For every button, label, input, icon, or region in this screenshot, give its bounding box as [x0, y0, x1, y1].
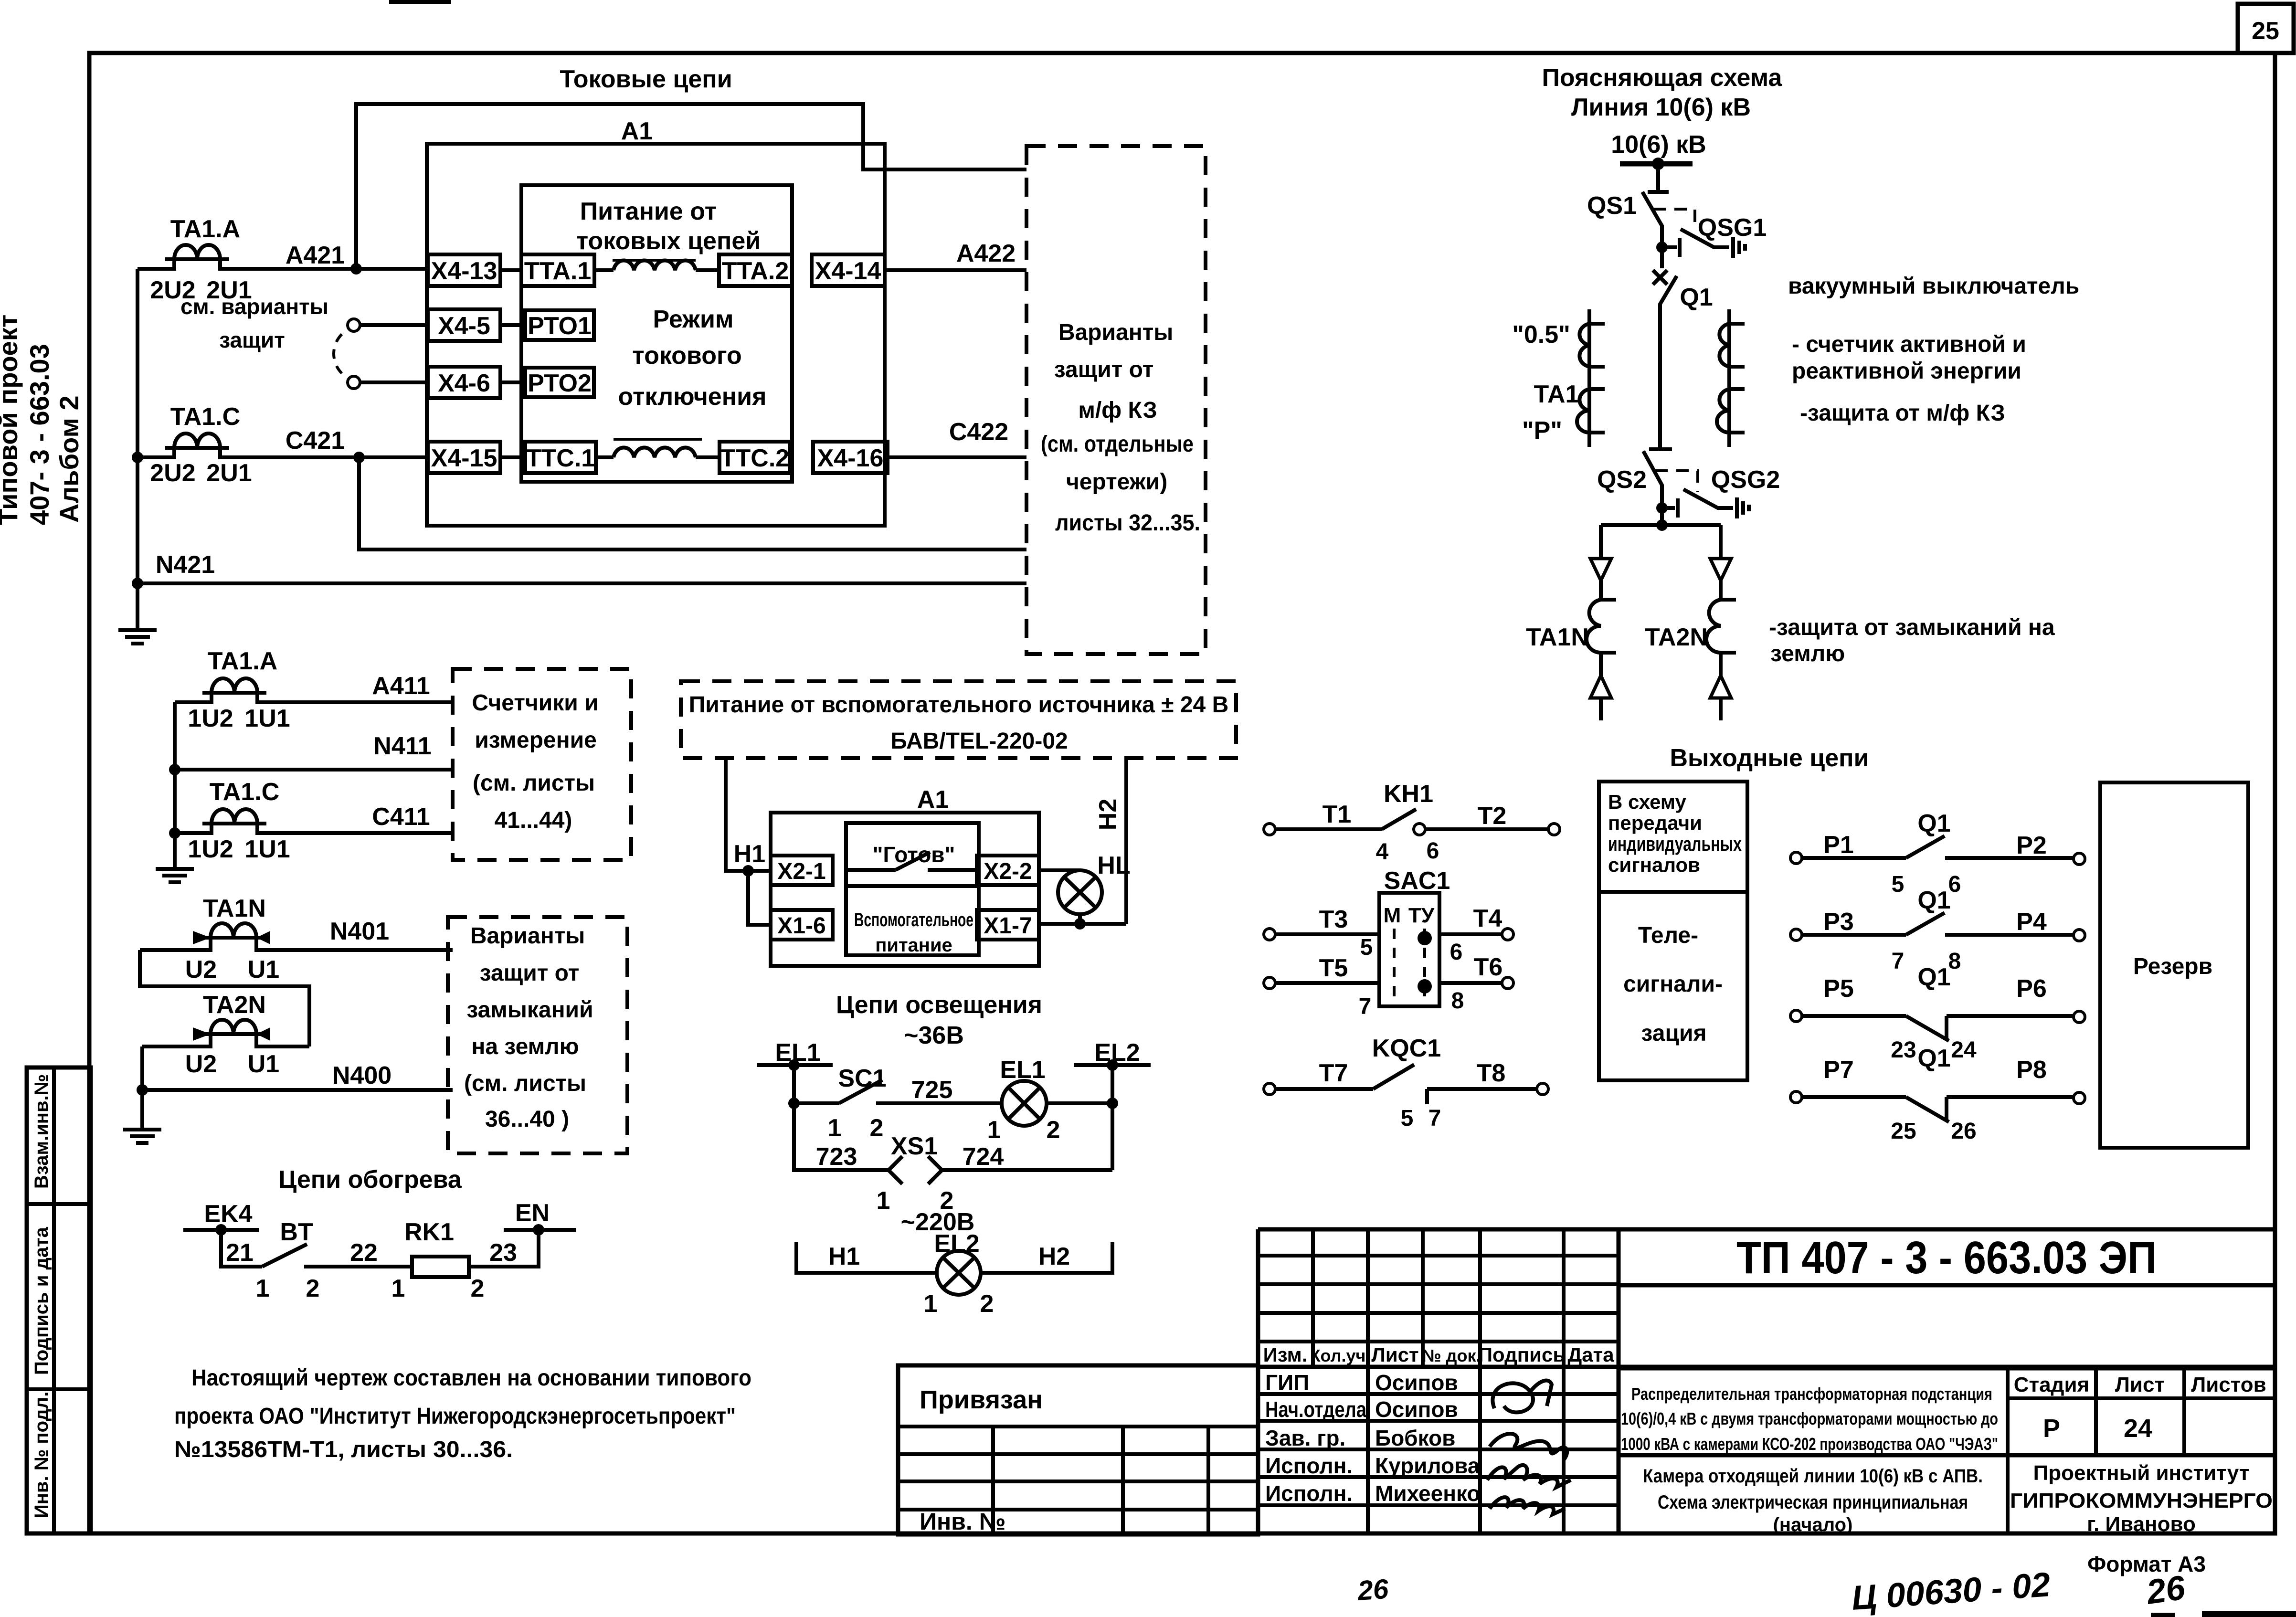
terminal X4-15: [428, 442, 500, 473]
busbar 10(6) kV: [1620, 161, 1693, 167]
svg-text:Вспомогательное: Вспомогательное: [854, 909, 973, 930]
wire T4: [1439, 905, 1513, 965]
svg-text:зация: зация: [1641, 1021, 1707, 1046]
svg-text:токового: токового: [632, 342, 741, 370]
switch SC1: [794, 1065, 887, 1142]
svg-text:A422: A422: [956, 240, 1016, 267]
wire aux left: [726, 758, 771, 871]
svg-text:U1: U1: [248, 1050, 279, 1078]
wire to X4-6: [360, 380, 428, 384]
stamp sheet title: [1643, 1466, 1983, 1535]
svg-text:H2: H2: [1038, 1243, 1070, 1270]
node H1: [742, 865, 754, 877]
wire left phase bus A: [136, 269, 139, 583]
svg-text:A421: A421: [286, 242, 345, 269]
svg-text:Лист: Лист: [1371, 1343, 1418, 1366]
svg-text:723: 723: [816, 1143, 857, 1171]
current transformer TA1.C metering: [175, 778, 453, 863]
wire H1 branch to X1-6: [748, 871, 771, 925]
svg-text:X4-6: X4-6: [438, 370, 490, 397]
terminal X4-6: [428, 367, 500, 398]
svg-text:Поясняющая схема: Поясняющая схема: [1542, 64, 1783, 92]
svg-text:Т1: Т1: [1323, 801, 1352, 828]
svg-text:P8: P8: [2016, 1056, 2047, 1084]
svg-text:X1-6: X1-6: [777, 913, 825, 939]
label Режим токового отключения: [618, 306, 767, 411]
svg-text:2: 2: [1047, 1116, 1060, 1144]
terminal X4-14: [812, 254, 885, 286]
disconnector QS2: [1597, 451, 1662, 508]
svg-text:Цепи освещения: Цепи освещения: [836, 991, 1042, 1019]
svg-text:Резерв: Резерв: [2133, 954, 2212, 979]
svg-text:листы 32...35.: листы 32...35.: [1055, 510, 1200, 536]
inner box Готов: [846, 823, 979, 955]
svg-text:Q1: Q1: [1917, 1045, 1950, 1072]
svg-text:1U2: 1U2: [188, 835, 233, 863]
svg-text:Питание от вспомогательного ис: Питание от вспомогательного источника ± …: [689, 692, 1229, 718]
svg-text:2U2: 2U2: [150, 459, 195, 487]
sheet number box 25: [2238, 4, 2294, 53]
wire TA1N to TA2N link: [140, 950, 309, 1046]
terminal X4-5: [428, 309, 500, 341]
svg-text:EK4: EK4: [204, 1200, 252, 1228]
svg-text:РТО2: РТО2: [528, 370, 592, 397]
svg-text:чертежи): чертежи): [1066, 469, 1167, 495]
telemetry box: [1599, 782, 1747, 1080]
terminal X4-13: [428, 254, 500, 286]
svg-text:Исполн.: Исполн.: [1265, 1481, 1353, 1506]
left info strip table: [27, 1067, 91, 1533]
svg-text:EN: EN: [515, 1199, 550, 1227]
svg-text:1: 1: [256, 1275, 270, 1302]
svg-text:(см. отдельные: (см. отдельные: [1041, 432, 1194, 457]
svg-text:HL: HL: [1097, 852, 1130, 879]
svg-text:защит от: защит от: [1054, 357, 1153, 382]
svg-text:Q1: Q1: [1917, 810, 1950, 837]
resistor RK1: [391, 1218, 485, 1302]
svg-text:ТУ: ТУ: [1408, 904, 1435, 927]
svg-text:P1: P1: [1823, 831, 1854, 859]
svg-text:TA1.C: TA1.C: [170, 403, 240, 431]
svg-text:Q1: Q1: [1917, 963, 1950, 991]
svg-text:U1: U1: [248, 956, 279, 983]
svg-text:TA1N: TA1N: [203, 895, 266, 922]
wire X1-7 to H2: [1039, 922, 1126, 926]
stamp stage cells: [2014, 1373, 2266, 1443]
node below QS1: [1656, 242, 1668, 253]
ground under C411: [156, 833, 194, 882]
label Питание от токовых цепей: [576, 198, 761, 260]
svg-text:QSG2: QSG2: [1711, 466, 1780, 494]
terminal PTO2: [500, 368, 594, 397]
svg-text:X4-14: X4-14: [815, 257, 881, 285]
wire 723 return: [794, 1103, 889, 1170]
stamp role names: [1265, 1370, 1481, 1506]
svg-text:Т2: Т2: [1478, 802, 1507, 830]
svg-text:5: 5: [1401, 1106, 1414, 1131]
svg-text:Исполн.: Исполн.: [1265, 1453, 1353, 1478]
terminal X4-16: [813, 442, 888, 473]
svg-text:725: 725: [911, 1076, 953, 1104]
svg-text:SAC1: SAC1: [1384, 867, 1450, 895]
svg-text:Т3: Т3: [1319, 906, 1348, 933]
svg-text:Формат А3: Формат А3: [2087, 1552, 2206, 1576]
wire T3: [1264, 906, 1379, 960]
note text about source project: [174, 1365, 751, 1462]
svg-text:BT: BT: [280, 1218, 313, 1246]
wire 23: [469, 1230, 539, 1267]
svg-text:TA1.A: TA1.A: [170, 215, 240, 243]
svg-text:сигнали-: сигнали-: [1623, 972, 1723, 997]
svg-text:Т6: Т6: [1474, 953, 1503, 981]
svg-text:проекта ОАО "Институт Нижегоро: проекта ОАО "Институт Нижегородскэнергос…: [174, 1404, 736, 1429]
svg-text:P2: P2: [2016, 832, 2047, 859]
node N411: [169, 764, 180, 775]
current transformer TA1.C: [138, 403, 428, 487]
svg-text:№ док.: № док.: [1422, 1346, 1481, 1365]
svg-text:6: 6: [1450, 940, 1463, 965]
svg-text:24: 24: [1951, 1037, 1977, 1063]
svg-text:24: 24: [2124, 1414, 2152, 1443]
svg-text:передачи: передачи: [1608, 812, 1702, 834]
lamp EL1: [987, 1056, 1060, 1144]
terminal X1-7: [977, 910, 1039, 940]
breaker aux contact row P7 P8: [1790, 1045, 2085, 1144]
svg-text:QS2: QS2: [1597, 466, 1647, 494]
svg-text:26: 26: [1951, 1119, 1976, 1144]
earthing switch QSG2: [1655, 466, 1780, 518]
terminal TTC.1: [500, 442, 596, 473]
svg-text:ТА1: ТА1: [1534, 380, 1579, 408]
svg-text:Т8: Т8: [1477, 1059, 1506, 1087]
svg-text:P3: P3: [1823, 908, 1854, 936]
svg-text:Q1: Q1: [1680, 284, 1713, 311]
svg-text:на землю: на землю: [471, 1034, 579, 1059]
svg-text:Т5: Т5: [1319, 954, 1348, 982]
svg-text:KH1: KH1: [1384, 780, 1433, 808]
svg-text:EL1: EL1: [1000, 1056, 1045, 1084]
svg-text:H1: H1: [828, 1243, 860, 1270]
node C421 junction: [353, 452, 365, 463]
svg-text:1: 1: [877, 1187, 890, 1215]
wire N411: [175, 768, 453, 772]
svg-text:EL2: EL2: [934, 1230, 979, 1258]
variants KZ dashed box: [1026, 146, 1206, 654]
svg-text:1U2: 1U2: [188, 705, 233, 732]
svg-text:ГИПРОКОММУНЭНЕРГО: ГИПРОКОММУНЭНЕРГО: [2010, 1489, 2273, 1512]
svg-text:U2: U2: [185, 956, 217, 983]
svg-text:7: 7: [1892, 949, 1905, 974]
selector switch SAC1: [1379, 867, 1450, 1006]
node EK4: [183, 1200, 259, 1236]
svg-text:1: 1: [987, 1116, 1001, 1144]
svg-text:26: 26: [1356, 1574, 1390, 1606]
svg-text:X4-15: X4-15: [431, 444, 497, 472]
svg-text:X4-16: X4-16: [817, 444, 884, 472]
reserve box: [2100, 782, 2248, 1148]
svg-text:N411: N411: [373, 732, 431, 760]
node EL1 stub: [757, 1039, 833, 1071]
svg-text:407- 3 - 663.03: 407- 3 - 663.03: [24, 344, 54, 525]
contact KH1 row T1 T2: [1264, 780, 1560, 865]
inner module box: [521, 185, 792, 482]
svg-text:P5: P5: [1823, 975, 1854, 1003]
stamp object description: [1621, 1384, 1998, 1454]
cable CT TA1N branch: [1526, 525, 1616, 720]
svg-text:Бобков: Бобков: [1375, 1426, 1455, 1450]
inductor TTA coil: [594, 261, 719, 270]
lamp HL: [1058, 852, 1131, 914]
svg-text:Нач.отдела: Нач.отдела: [1265, 1397, 1366, 1422]
svg-text:7: 7: [1359, 994, 1372, 1019]
svg-text:8: 8: [1451, 988, 1464, 1014]
current transformer TA1: [1512, 309, 1605, 447]
svg-text:724: 724: [963, 1143, 1004, 1171]
svg-text:X4-5: X4-5: [438, 312, 490, 340]
terminal X2-2: [977, 856, 1039, 885]
breaker aux contact row P1 P2: [1790, 810, 2085, 897]
svg-text:TA1.A: TA1.A: [208, 647, 277, 675]
wire return 1: [359, 457, 1026, 550]
wire X2-2 to lamp: [1039, 868, 1080, 872]
svg-text:22: 22: [350, 1239, 378, 1267]
svg-text:Варианты: Варианты: [1058, 320, 1173, 345]
dashed variants arc: [334, 334, 342, 373]
svg-text:1: 1: [828, 1114, 842, 1142]
svg-text:м/ф КЗ: м/ф КЗ: [1078, 398, 1157, 423]
terminal TTA.2: [719, 254, 792, 286]
terminal PTO1: [500, 310, 594, 340]
svg-text:41...44): 41...44): [495, 808, 572, 833]
earth fault variants dashed box: [448, 917, 627, 1153]
svg-text:C411: C411: [372, 803, 430, 831]
wire top feed bus to variants box: [356, 104, 1026, 269]
svg-text:Кол.уч.: Кол.уч.: [1310, 1346, 1371, 1365]
svg-text:Стадия: Стадия: [2014, 1373, 2089, 1396]
svg-text:7: 7: [1428, 1106, 1441, 1131]
svg-text:см. варианты: см. варианты: [180, 294, 328, 319]
title block main stamp: [1258, 1229, 2275, 1533]
svg-text:"Р": "Р": [1522, 417, 1562, 444]
variants protection contact circle 1: [348, 319, 360, 331]
svg-text:отключения: отключения: [618, 383, 767, 411]
ground under N400: [123, 1090, 161, 1143]
svg-text:4: 4: [1376, 839, 1389, 865]
svg-text:KQC1: KQC1: [1372, 1035, 1441, 1062]
svg-text:2: 2: [980, 1290, 994, 1318]
svg-text:ГИП: ГИП: [1265, 1370, 1309, 1395]
svg-text:Инв. №: Инв. №: [920, 1508, 1005, 1535]
scan artifact top line: [389, 0, 451, 4]
wire N421: [138, 581, 1026, 585]
svg-text:X1-7: X1-7: [984, 913, 1032, 939]
disconnector QS1: [1587, 164, 1669, 247]
svg-text:Листов: Листов: [2191, 1373, 2266, 1396]
wire EK4 down: [221, 1230, 262, 1267]
svg-text:Привязан: Привязан: [920, 1385, 1043, 1414]
svg-text:токовых цепей: токовых цепей: [576, 227, 761, 255]
svg-text:Проектный институт: Проектный институт: [2033, 1461, 2250, 1485]
svg-text:1000 кВА с камерами КСО-202 пр: 1000 кВА с камерами КСО-202 производства…: [1621, 1434, 1998, 1454]
svg-text:2: 2: [870, 1114, 884, 1142]
wire N400: [140, 1046, 144, 1090]
svg-text:ТП 407 - 3 - 663.03 ЭП: ТП 407 - 3 - 663.03 ЭП: [1736, 1232, 2157, 1283]
svg-text:TA1N: TA1N: [1526, 624, 1589, 651]
svg-text:A1: A1: [621, 117, 653, 145]
contact KQC1 row T7 T8: [1264, 1035, 1548, 1131]
terminal TTC.2: [719, 442, 790, 473]
svg-text:2U1: 2U1: [206, 459, 252, 487]
wire C422: [888, 455, 1026, 459]
svg-text:N421: N421: [156, 551, 215, 579]
svg-text:X2-2: X2-2: [984, 859, 1032, 884]
svg-text:БАВ/TEL-220-02: БАВ/TEL-220-02: [890, 729, 1068, 754]
svg-text:1: 1: [924, 1290, 938, 1318]
svg-text:21: 21: [226, 1239, 254, 1267]
wire left bus lower group: [173, 702, 177, 833]
zero sequence CT TA1N: [140, 895, 453, 983]
svg-text:1U1: 1U1: [244, 705, 290, 732]
variants protection contact circle 2: [348, 376, 360, 389]
terminal X2-1: [771, 856, 833, 885]
svg-text:- счетчик активной и: - счетчик активной и: [1792, 332, 2026, 357]
svg-text:Курилова: Курилова: [1375, 1453, 1480, 1478]
svg-text:защит: защит: [219, 328, 285, 352]
breaker aux contact row P5 P6: [1790, 963, 2085, 1063]
breaker aux contact row P3 P4: [1790, 887, 2085, 974]
svg-text:-защита от м/ф КЗ: -защита от м/ф КЗ: [1800, 401, 2005, 426]
svg-text:QS1: QS1: [1587, 192, 1637, 220]
wire lamp to EL2: [1047, 1101, 1112, 1105]
svg-text:Типовой проект: Типовой проект: [0, 315, 23, 525]
svg-text:P6: P6: [2016, 975, 2047, 1003]
node C411: [169, 827, 180, 839]
svg-text:Варианты: Варианты: [470, 923, 585, 949]
svg-text:Осипов: Осипов: [1375, 1397, 1458, 1422]
svg-text:A411: A411: [372, 672, 430, 700]
svg-text:(см. листы: (см. листы: [464, 1071, 586, 1096]
svg-text:TTC.1: TTC.1: [526, 444, 595, 472]
signatures: [1487, 1381, 1571, 1514]
svg-text:М: М: [1384, 904, 1401, 927]
svg-text:Схема электрическая принципиал: Схема электрическая принципиальная: [1658, 1492, 1968, 1513]
switch BT: [256, 1218, 320, 1302]
svg-text:Цепи обогрева: Цепи обогрева: [278, 1166, 462, 1194]
svg-text:индивидуальных: индивидуальных: [1608, 833, 1742, 855]
connector XS1: [877, 1132, 954, 1215]
svg-text:TTC.2: TTC.2: [720, 444, 789, 472]
svg-text:землю: землю: [1770, 641, 1845, 666]
svg-text:вакуумный выключатель: вакуумный выключатель: [1788, 274, 2079, 299]
earthing switch QSG1: [1653, 209, 1767, 258]
svg-text:23: 23: [1891, 1037, 1916, 1063]
svg-text:RK1: RK1: [404, 1218, 454, 1246]
svg-text:Подпись и дата: Подпись и дата: [31, 1226, 52, 1375]
svg-text:5: 5: [1360, 935, 1373, 960]
svg-text:TTA.2: TTA.2: [722, 257, 789, 285]
svg-text:H2: H2: [1094, 799, 1122, 830]
svg-text:"Готов": "Готов": [873, 842, 955, 867]
svg-text:Питание от: Питание от: [580, 198, 717, 225]
svg-text:защит от: защит от: [480, 961, 579, 986]
label Вспомогательное питание: [854, 909, 973, 956]
current transformer TA1.A metering: [175, 647, 453, 732]
svg-text:U2: U2: [185, 1050, 217, 1078]
svg-text:X4-13: X4-13: [431, 257, 497, 285]
svg-text:Распределительная трансформато: Распределительная трансформаторная подст…: [1631, 1384, 1992, 1404]
svg-text:Токовые цепи: Токовые цепи: [560, 65, 732, 93]
svg-text:SC1: SC1: [838, 1065, 886, 1092]
svg-text:C422: C422: [949, 418, 1008, 446]
svg-text:26: 26: [2143, 1568, 2188, 1612]
cable CT TA2N branch: [1645, 525, 1736, 720]
svg-text:H1: H1: [734, 840, 765, 868]
svg-text:Т4: Т4: [1473, 905, 1502, 932]
node A421 junction: [350, 263, 362, 275]
wire to X4-5: [360, 323, 428, 327]
wire T5: [1264, 954, 1379, 1019]
svg-text:A1: A1: [917, 786, 949, 814]
svg-text:TA2N: TA2N: [1645, 624, 1708, 651]
node EL2 stub: [1074, 1039, 1151, 1071]
meters dashed box Счетчики и измерение: [453, 669, 631, 860]
svg-text:10(6) кВ: 10(6) кВ: [1611, 131, 1706, 159]
node EN: [504, 1199, 576, 1236]
svg-text:Выходные цепи: Выходные цепи: [1670, 744, 1869, 772]
svg-text:-защита от замыканий на: -защита от замыканий на: [1769, 615, 2055, 640]
svg-text:сигналов: сигналов: [1608, 854, 1700, 876]
svg-text:Теле-: Теле-: [1638, 923, 1698, 948]
handwritten inventory number: [1356, 1565, 2188, 1617]
inductor TTC coil: [596, 439, 719, 457]
scan artifact bottom right: [2151, 1613, 2175, 1617]
svg-text:измерение: измерение: [475, 728, 597, 753]
stamp header labels: [1263, 1343, 1615, 1366]
svg-text:TA2N: TA2N: [203, 991, 266, 1019]
terminal X1-6: [771, 910, 833, 940]
wire aux right H2: [1124, 758, 1128, 924]
wire 22: [304, 1265, 412, 1268]
svg-text:TTA.1: TTA.1: [524, 257, 592, 285]
wire 220V left stub: [796, 1242, 937, 1273]
svg-text:№13586ТМ-Т1, листы 30...36.: №13586ТМ-Т1, листы 30...36.: [174, 1437, 513, 1462]
wire T6: [1439, 953, 1513, 1014]
svg-text:10(6)/0,4 кВ с двумя трансформ: 10(6)/0,4 кВ с двумя трансформаторами мо…: [1621, 1409, 1998, 1428]
svg-text:"0.5": "0.5": [1512, 321, 1570, 349]
breaker Q1: [1649, 247, 1713, 449]
svg-text:C421: C421: [286, 427, 345, 454]
current transformer TA1.A: [138, 215, 428, 304]
svg-text:Инв. № подл.: Инв. № подл.: [31, 1392, 52, 1518]
wire 724: [942, 1168, 1112, 1172]
svg-text:Подпись: Подпись: [1478, 1343, 1565, 1366]
svg-text:замыканий: замыканий: [466, 997, 593, 1023]
svg-text:2: 2: [471, 1275, 485, 1302]
svg-text:Р: Р: [2043, 1414, 2060, 1443]
stamp institute: [2010, 1461, 2273, 1536]
svg-text:(см. листы: (см. листы: [473, 771, 595, 796]
svg-text:Q1: Q1: [1917, 887, 1950, 914]
svg-text:Дата: Дата: [1567, 1343, 1614, 1366]
svg-text:РТО1: РТО1: [528, 312, 592, 340]
svg-text:Взам.инв.№: Взам.инв.№: [31, 1074, 52, 1189]
svg-text:2: 2: [306, 1275, 320, 1302]
wire EL1 down: [792, 1065, 796, 1103]
svg-text:В схему: В схему: [1608, 791, 1686, 813]
wire EL2 down: [1111, 1065, 1114, 1170]
svg-text:X2-1: X2-1: [777, 859, 825, 884]
svg-text:36...40 ): 36...40 ): [485, 1107, 569, 1132]
